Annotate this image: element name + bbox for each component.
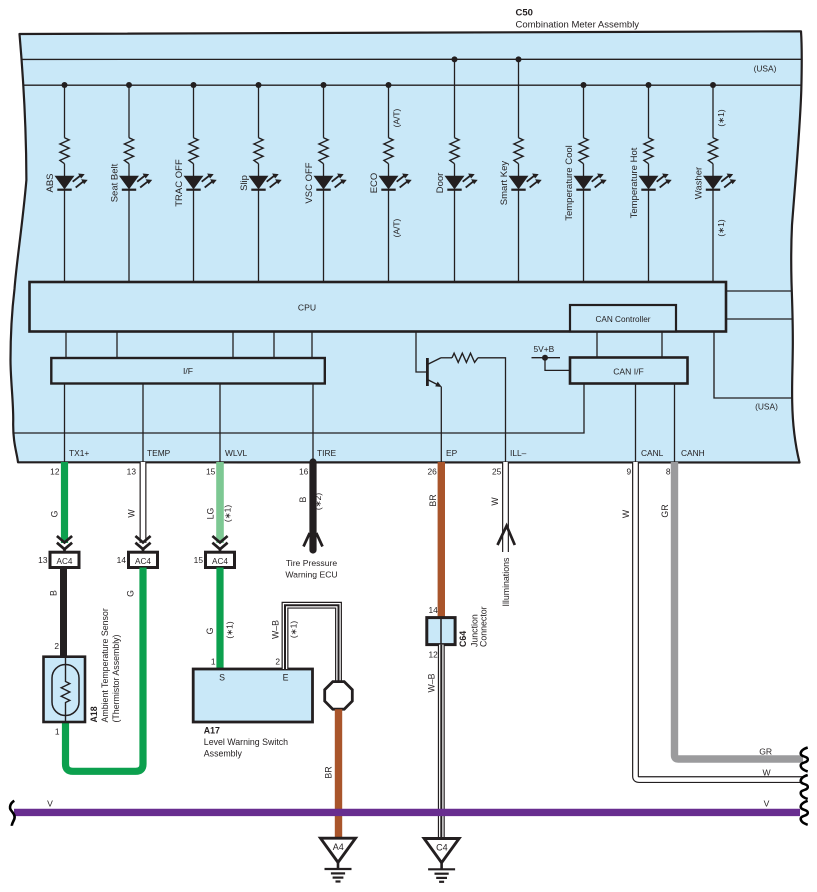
- svg-text:(∗1): (∗1): [224, 621, 234, 638]
- svg-text:Temperature Hot: Temperature Hot: [629, 147, 640, 218]
- wire W-B from A17 pin 2 (E) to noise filter: [285, 605, 339, 683]
- svg-text:S: S: [219, 673, 225, 683]
- svg-text:A18: A18: [89, 706, 99, 722]
- svg-text:V: V: [764, 799, 770, 809]
- switch A17 Level Warning Switch Assembly: [193, 669, 312, 722]
- wire W from ILL- pin 25 to illuminations: [502, 462, 509, 552]
- wire CPU to I/F at x=274: [273, 332, 275, 359]
- break symbol GR right: [801, 748, 808, 772]
- svg-text:W: W: [621, 509, 631, 518]
- svg-text:14: 14: [117, 555, 127, 565]
- svg-text:Door: Door: [435, 173, 446, 194]
- wire CPU to I/F at x=66: [65, 332, 67, 359]
- svg-text:8: 8: [666, 467, 671, 477]
- svg-text:(USA): (USA): [755, 402, 778, 412]
- svg-text:(∗1): (∗1): [222, 505, 232, 522]
- svg-text:TX1+: TX1+: [69, 448, 89, 458]
- svg-text:EP: EP: [446, 448, 458, 458]
- indicator LED branch: Temperature Cool: [564, 82, 607, 282]
- wire I/F to pin at x=220: [219, 384, 221, 463]
- junction connector C64: [427, 618, 455, 645]
- svg-text:Washer: Washer: [694, 167, 705, 199]
- sensor A18 Ambient Temperature Sensor (Thermistor Assembly): [44, 657, 86, 722]
- indicator LED branch: Washer: [694, 82, 737, 282]
- svg-text:26: 26: [427, 467, 437, 477]
- svg-text:12: 12: [50, 467, 60, 477]
- svg-text:2: 2: [54, 641, 59, 651]
- label Tire Pressure Warning ECU: [285, 558, 337, 580]
- label A17: [204, 726, 288, 759]
- svg-text:A4: A4: [333, 842, 344, 852]
- svg-text:1: 1: [55, 727, 60, 737]
- svg-text:12: 12: [428, 650, 438, 660]
- indicator LED branch: Door: [435, 56, 478, 282]
- svg-text:9: 9: [627, 467, 632, 477]
- svg-text:(∗2): (∗2): [313, 493, 323, 510]
- svg-text:GR: GR: [759, 747, 772, 757]
- noise filter octagon: [325, 682, 353, 710]
- svg-text:W–B: W–B: [426, 673, 436, 692]
- svg-text:CANH: CANH: [681, 448, 705, 458]
- wire I/F to pin at x=313: [312, 384, 314, 463]
- svg-text:CPU: CPU: [298, 303, 316, 313]
- wire V bus: [14, 809, 800, 816]
- break symbol V bus left: [10, 801, 15, 826]
- wire I/F to pin at x=143: [142, 384, 144, 463]
- wire stub from CPU right edge to page edge (upper): [726, 290, 793, 292]
- connector AC4 pin 14: [117, 536, 158, 568]
- wire stub from CPU right edge to page edge (lower): [726, 318, 793, 320]
- power symbol 5V+B: [532, 344, 571, 370]
- svg-text:15: 15: [206, 467, 216, 477]
- wire W from CANL pin 9 to page edge: [636, 462, 804, 780]
- svg-text:C50: C50: [516, 8, 533, 19]
- connector AC4 pin 13: [38, 536, 79, 568]
- svg-text:V: V: [47, 799, 53, 809]
- wire: resistor to ILL- pin 25: [478, 358, 506, 462]
- svg-text:CAN Controller: CAN Controller: [595, 315, 650, 324]
- svg-text:(Thermistor Assembly): (Thermistor Assembly): [111, 634, 121, 722]
- svg-text:Ambient Temperature Sensor: Ambient Temperature Sensor: [100, 608, 110, 722]
- svg-text:GR: GR: [660, 504, 670, 517]
- wire CAN I/F to CANH pin 8: [674, 384, 676, 463]
- svg-text:W–B: W–B: [271, 620, 281, 639]
- svg-text:Tire Pressure: Tire Pressure: [286, 558, 337, 568]
- svg-text:1: 1: [211, 657, 216, 667]
- wire B from AC4 13 to A18 pin 2: [60, 568, 67, 658]
- svg-text:AC4: AC4: [135, 557, 151, 566]
- svg-text:W: W: [127, 509, 137, 518]
- indicator LED branch: Seat Belt: [110, 82, 153, 282]
- wire CPU to I/F at x=117: [116, 332, 118, 359]
- svg-text:Temperature Cool: Temperature Cool: [564, 145, 575, 221]
- svg-text:I/F: I/F: [183, 366, 193, 376]
- wire W from TEMP pin 13: [140, 462, 147, 543]
- transistor Q1: [427, 358, 441, 387]
- wire: Q1 emitter to EP pin 26: [440, 387, 442, 463]
- svg-text:Level Warning Switch: Level Warning Switch: [204, 737, 288, 747]
- wire CPU to I/F at x=233: [232, 332, 234, 359]
- indicator LED branch: ABS: [45, 82, 88, 282]
- svg-text:14: 14: [428, 605, 438, 615]
- svg-text:Smart Key: Smart Key: [499, 161, 510, 206]
- svg-text:(∗1): (∗1): [289, 621, 299, 638]
- svg-text:ECO: ECO: [369, 173, 380, 194]
- wire I/F to pin at x=64.5: [64, 384, 66, 463]
- svg-text:BR: BR: [324, 766, 334, 778]
- wire G from AC4 15 to A17 pin 1: [216, 568, 223, 670]
- wire G from TX1+ pin 12: [61, 462, 68, 543]
- svg-text:25: 25: [492, 467, 502, 477]
- svg-text:(A/T): (A/T): [392, 108, 402, 127]
- svg-text:ABS: ABS: [45, 173, 56, 192]
- wire LG from WLVL pin 15: [216, 462, 224, 543]
- svg-text:TRAC OFF: TRAC OFF: [174, 159, 185, 207]
- svg-text:2: 2: [275, 657, 280, 667]
- wire B from TIRE pin 16 to Tire Pressure Warning ECU: [304, 462, 323, 550]
- resistor R1 (illumination): [452, 353, 478, 362]
- svg-text:Assembly: Assembly: [204, 749, 243, 759]
- svg-text:15: 15: [194, 555, 204, 565]
- svg-text:AC4: AC4: [212, 557, 228, 566]
- svg-text:E: E: [283, 673, 289, 683]
- svg-text:LG: LG: [206, 507, 216, 519]
- svg-text:CANL: CANL: [641, 448, 664, 458]
- svg-text:W: W: [490, 497, 500, 506]
- svg-text:5V+B: 5V+B: [534, 344, 555, 354]
- svg-text:B: B: [298, 496, 308, 502]
- svg-text:(USA): (USA): [754, 63, 777, 73]
- svg-text:ILL–: ILL–: [510, 448, 527, 458]
- wire CAN Controller to CAN I/F (left): [596, 332, 598, 358]
- svg-text:TEMP: TEMP: [147, 448, 171, 458]
- svg-text:Illuminations: Illuminations: [501, 557, 511, 606]
- break symbol W right: [801, 775, 808, 799]
- svg-text:Connector: Connector: [479, 606, 489, 647]
- svg-text:16: 16: [299, 467, 309, 477]
- svg-text:C64: C64: [458, 631, 468, 647]
- wire BR from noise filter to ground A4: [335, 709, 342, 837]
- indicator LED branch: VSC OFF: [304, 82, 347, 282]
- wire G from AC4 14 to A18 pin 1: [66, 568, 144, 772]
- ground C4: [424, 839, 459, 882]
- C50 title label: [516, 8, 640, 31]
- svg-text:13: 13: [38, 555, 48, 565]
- svg-text:WLVL: WLVL: [225, 448, 248, 458]
- svg-text:13: 13: [127, 467, 137, 477]
- wire: Q1 collector to resistor: [441, 357, 452, 359]
- svg-text:AC4: AC4: [57, 557, 73, 566]
- wire CPU to I/F at x=312: [311, 332, 313, 359]
- svg-text:G: G: [126, 590, 136, 597]
- svg-text:(∗1): (∗1): [716, 219, 726, 236]
- wire: washer circuit (USA) to page edge: [714, 332, 792, 399]
- indicator LED branch: TRAC OFF: [174, 82, 217, 282]
- indicator LED branch: Smart Key: [499, 56, 542, 282]
- CAN I/F block: [570, 358, 688, 384]
- svg-text:Warning ECU: Warning ECU: [285, 570, 337, 580]
- svg-text:TIRE: TIRE: [317, 448, 336, 458]
- svg-text:VSC OFF: VSC OFF: [304, 162, 315, 203]
- break symbol V right: [801, 801, 808, 825]
- arrow to illumination system: [498, 526, 515, 545]
- svg-text:C4: C4: [436, 842, 448, 852]
- svg-text:B: B: [49, 590, 59, 596]
- combination meter assembly C50 outline: [11, 31, 802, 462]
- wire: top supply bus 1: [22, 58, 803, 60]
- svg-text:(A/T): (A/T): [392, 218, 402, 237]
- svg-text:CAN I/F: CAN I/F: [613, 367, 644, 377]
- CPU block U1: [30, 282, 727, 332]
- svg-text:BR: BR: [428, 494, 438, 506]
- wire CAN Controller to CAN I/F (right): [661, 332, 663, 358]
- I/F block: [51, 358, 325, 384]
- svg-text:Slip: Slip: [239, 175, 250, 191]
- svg-text:(∗1): (∗1): [716, 109, 726, 126]
- wire W-B from C64 pin 12 to ground C4: [438, 645, 445, 838]
- wire: top supply bus 2 (USA): [24, 84, 802, 86]
- wire BR from EP pin 26 to C64: [438, 462, 445, 618]
- indicator LED branch: Slip: [239, 82, 282, 282]
- svg-text:Seat Belt: Seat Belt: [110, 163, 121, 202]
- svg-text:W: W: [762, 768, 771, 778]
- wire GR from CANH pin 8 to page edge: [675, 462, 804, 759]
- svg-text:G: G: [50, 510, 60, 517]
- svg-text:G: G: [205, 627, 215, 634]
- connector AC4 pin 15: [194, 536, 235, 568]
- ground A4: [321, 838, 356, 881]
- svg-text:A17: A17: [204, 726, 220, 736]
- transistor Q1 base wire from CPU: [416, 332, 426, 373]
- indicator LED branch: Temperature Hot: [629, 82, 672, 282]
- wire CAN I/F to internal rail: [15, 384, 585, 434]
- CAN Controller block: [570, 305, 676, 332]
- indicator LED branch: ECO: [369, 82, 412, 282]
- wire CAN I/F to CANL pin 9: [635, 384, 637, 463]
- svg-text:Combination Meter Assembly: Combination Meter Assembly: [516, 20, 640, 31]
